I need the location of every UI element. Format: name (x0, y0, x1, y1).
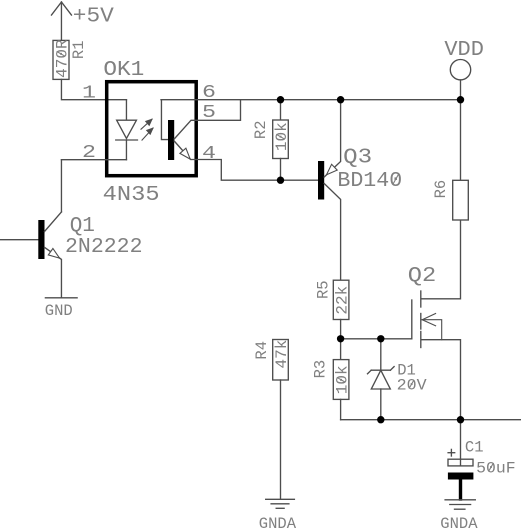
svg-text:+5V: +5V (73, 6, 114, 29)
svg-text:R5: R5 (314, 280, 332, 299)
svg-text:4: 4 (202, 144, 216, 164)
slashed zero marks (57, 52, 493, 471)
svg-text:2N2222: 2N2222 (65, 236, 143, 259)
value 50uF (476, 460, 516, 478)
resistor R5 (333, 280, 349, 339)
svg-text:4N35: 4N35 (103, 184, 160, 207)
junction R5/R3 (337, 335, 344, 342)
phototransistor collector / pin 5 wire (174, 100, 240, 139)
svg-text:2: 2 (82, 143, 96, 163)
svg-text:GNDA: GNDA (259, 515, 297, 530)
value 2N2222 (65, 236, 143, 259)
label GND (45, 302, 73, 320)
label R6 (432, 180, 450, 199)
C1 plus sign (448, 449, 455, 456)
ground GNDA center (266, 499, 295, 508)
Q2 drain (422, 220, 461, 299)
supply label +5V (73, 6, 114, 29)
Q1 collector diagonal (45, 212, 62, 232)
junction pin4 rail / R2 bottom (277, 177, 284, 184)
junction D1 top (377, 335, 384, 342)
svg-text:470R: 470R (53, 39, 71, 78)
LED inside OK1 (116, 100, 138, 160)
pin number 5 (202, 103, 216, 123)
Q2 source (422, 340, 461, 420)
gate rail (341, 338, 412, 340)
value 22k (334, 286, 352, 315)
transistor Q1 base wire (0, 239, 38, 241)
svg-text:10k: 10k (334, 365, 352, 394)
pin number 4 (202, 144, 216, 164)
Q2 bulk arrow (422, 314, 442, 340)
transistor Q2 gate bar (411, 300, 413, 339)
top rail net (161, 99, 461, 101)
light arrow 1 (141, 119, 152, 129)
pin number 2 (82, 143, 96, 163)
label Q2 (408, 265, 437, 288)
svg-text:R4: R4 (253, 341, 271, 360)
label D1 (397, 362, 416, 380)
wire R1 to OK1 pin 1 (61, 79, 126, 99)
phototransistor base routing (161, 100, 168, 140)
value 470R (53, 39, 71, 78)
svg-text:Q3: Q3 (343, 147, 372, 170)
svg-text:GND: GND (45, 302, 73, 320)
Q1 emitter arrowhead (48, 249, 59, 259)
label R4 (253, 341, 271, 360)
label Q1 (70, 215, 95, 238)
pin number 1 (82, 84, 96, 104)
ground GND (45, 297, 77, 299)
label R2 (252, 120, 270, 139)
value 10k (334, 365, 352, 394)
label GNDA center (259, 515, 297, 530)
Q1 base bar (38, 220, 44, 259)
label Q3 (343, 147, 372, 170)
pin number 6 (202, 83, 216, 103)
resistor R2 (273, 100, 289, 181)
Q2 channel dashes (420, 291, 422, 348)
svg-text:47k: 47k (273, 340, 291, 369)
light arrow 2 (142, 128, 153, 140)
svg-text:OK1: OK1 (103, 59, 144, 82)
bottom rail (341, 419, 521, 421)
resistor R3 (333, 339, 349, 420)
svg-text:BD140: BD140 (337, 170, 402, 193)
junction D1 bottom (377, 416, 384, 423)
svg-text:C1: C1 (465, 439, 484, 457)
value 47k (273, 340, 291, 369)
resistor R1 (53, 40, 69, 79)
label C1 (465, 439, 484, 457)
value 20V (397, 376, 428, 394)
capacitor C1 (448, 420, 474, 499)
phototransistor emitter / pin 4 wire (174, 141, 318, 180)
Q1 emitter diagonal (45, 247, 62, 297)
optocoupler OK1 box (107, 82, 197, 176)
diode D1 zener (368, 339, 395, 420)
svg-text:5: 5 (202, 103, 216, 123)
svg-text:R2: R2 (252, 120, 270, 139)
wire OK1 pin 2 (61, 159, 126, 161)
junction C1 top (457, 416, 464, 423)
label GNDA right (440, 515, 478, 530)
svg-text:R3: R3 (311, 360, 329, 379)
svg-text:GNDA: GNDA (440, 515, 478, 530)
svg-text:1: 1 (82, 84, 96, 104)
junction at Q3 emitter column (337, 96, 344, 103)
wire pin2 down to Q1 collector (60, 160, 62, 212)
svg-text:R6: R6 (432, 180, 450, 199)
junction at VDD column (457, 96, 464, 103)
emitter arrowhead (180, 148, 190, 159)
svg-text:22k: 22k (334, 286, 352, 315)
label R5 (314, 280, 332, 299)
label R1 (70, 40, 88, 59)
svg-text:20V: 20V (397, 376, 428, 394)
phototransistor bar (168, 120, 174, 160)
transistor Q3 base bar (318, 161, 324, 200)
svg-text:Q2: Q2 (408, 265, 437, 288)
supply VDD symbol (450, 59, 470, 99)
supply label VDD (444, 39, 484, 62)
Q3 emitter arrowhead (327, 164, 338, 175)
label R3 (311, 360, 329, 379)
label OK1 (103, 59, 144, 82)
svg-text:50uF: 50uF (476, 460, 516, 478)
value BD140 (337, 170, 402, 193)
svg-text:VDD: VDD (444, 39, 484, 62)
value 10k (273, 122, 291, 151)
svg-text:R1: R1 (70, 40, 88, 59)
junction at R2 top (277, 96, 284, 103)
supply +5V symbol (51, 2, 71, 40)
svg-text:10k: 10k (273, 122, 291, 151)
Q3 collector down (324, 184, 340, 281)
resistor R4 (273, 340, 289, 499)
Q3 emitter to top rail (324, 100, 340, 177)
value 4N35 (103, 184, 160, 207)
svg-text:Q1: Q1 (70, 215, 95, 238)
ground GNDA right (445, 500, 475, 509)
resistor R6 (453, 100, 469, 220)
